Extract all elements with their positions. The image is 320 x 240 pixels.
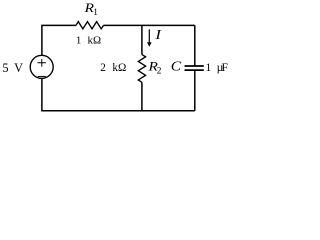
svg-text:2: 2	[157, 66, 162, 76]
resistor R1	[76, 22, 104, 29]
wire: top-right corner down to capacitor	[194, 25, 196, 66]
wire: bottom wire	[42, 78, 195, 110]
wire: top wire junction down to R2	[141, 25, 143, 54]
resistor R2	[138, 55, 145, 83]
svg-text:1kΩ: 1kΩ	[76, 35, 101, 47]
svg-text:1µF: 1µF	[206, 61, 229, 74]
current arrow I	[147, 29, 152, 47]
wire: R2 bottom to bottom wire	[141, 82, 143, 111]
svg-text:1: 1	[93, 8, 98, 18]
capacitor C	[185, 66, 204, 70]
voltage source V1 (5 V)	[30, 55, 53, 78]
svg-text:5V: 5V	[2, 61, 23, 75]
svg-text:C: C	[171, 59, 182, 74]
svg-text:I: I	[154, 28, 162, 43]
wire: capacitor bottom to bottom-right corner	[194, 70, 196, 111]
wire: R1 right to top-right corner	[104, 24, 195, 26]
wire: source top to top-left corner to R1	[42, 25, 76, 55]
svg-text:2kΩ: 2kΩ	[100, 62, 126, 74]
